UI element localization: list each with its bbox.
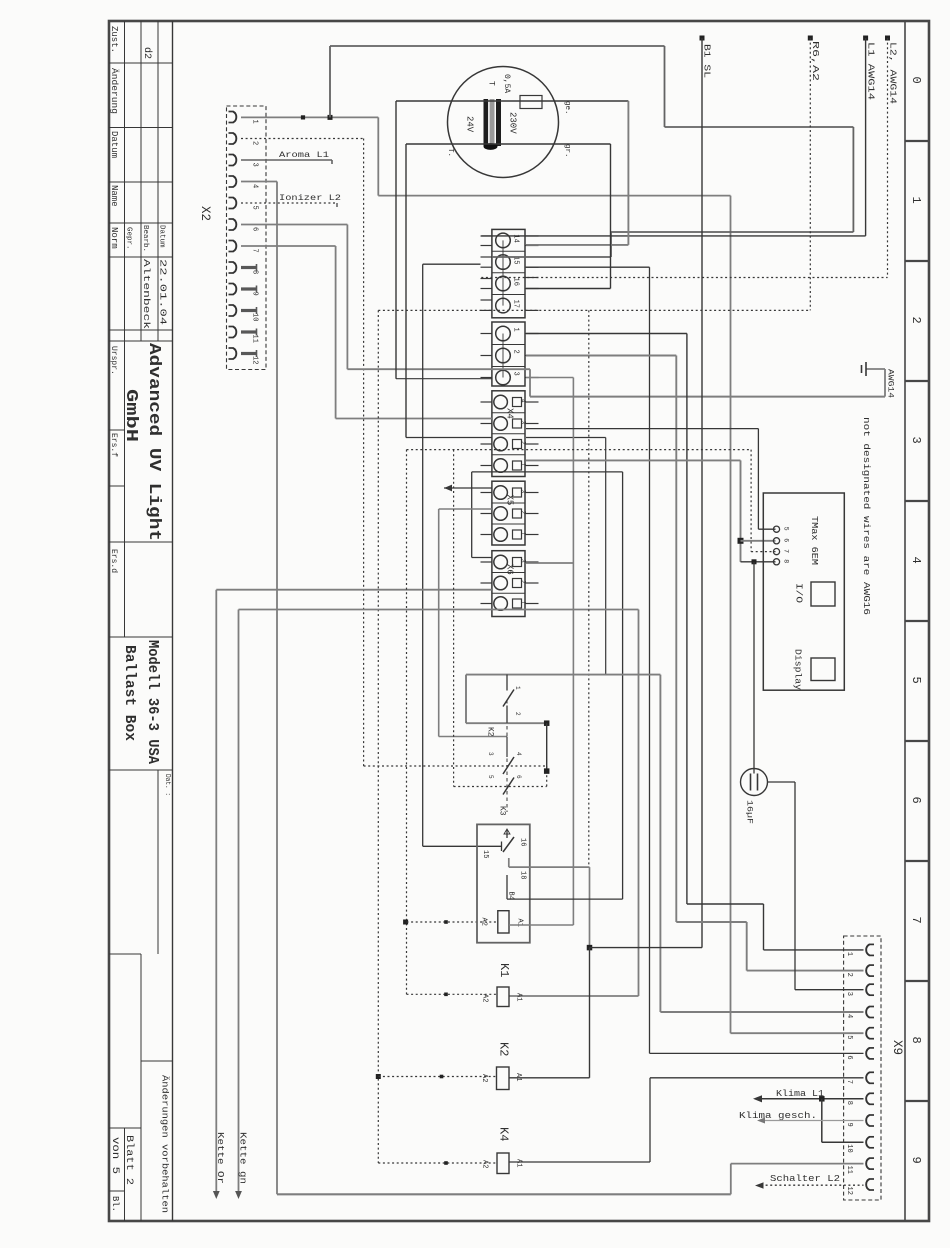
svg-text:2: 2 (514, 712, 521, 716)
svg-text:GmbH: GmbH (121, 389, 140, 442)
svg-text:Altenbeck: Altenbeck (141, 259, 152, 329)
svg-text:Norm: Norm (109, 227, 119, 249)
svg-text:A1: A1 (515, 1159, 523, 1167)
svg-text:2: 2 (251, 141, 259, 145)
svg-text:6: 6 (783, 538, 790, 542)
svg-text:0,5A: 0,5A (502, 74, 511, 93)
svg-text:X4: X4 (505, 408, 515, 419)
svg-text:Name: Name (109, 185, 119, 207)
svg-text:6: 6 (515, 775, 522, 779)
svg-text:Änderungen vorbehalten: Änderungen vorbehalten (160, 1075, 171, 1213)
svg-text:Ballast Box: Ballast Box (121, 645, 138, 741)
svg-text:4: 4 (251, 184, 259, 188)
svg-text:1: 1 (251, 120, 259, 124)
svg-text:2: 2 (512, 350, 520, 354)
svg-text:A2: A2 (481, 1160, 489, 1168)
svg-text:R6,A2: R6,A2 (810, 41, 820, 81)
svg-text:3: 3 (512, 372, 520, 376)
svg-text:7: 7 (251, 249, 259, 253)
svg-text:0: 0 (909, 77, 923, 84)
svg-text:9: 9 (845, 1123, 853, 1127)
svg-text:K1: K1 (497, 963, 511, 977)
svg-text:Schalter L2: Schalter L2 (770, 1173, 840, 1184)
svg-text:T: T (487, 81, 496, 86)
svg-text:K2: K2 (497, 1042, 511, 1056)
svg-text:5: 5 (487, 775, 494, 779)
svg-text:Datum: Datum (158, 225, 166, 248)
svg-text:3: 3 (845, 992, 853, 996)
svg-text:K4: K4 (497, 1127, 511, 1141)
svg-text:Urspr.: Urspr. (109, 346, 118, 375)
svg-text:16: 16 (512, 278, 520, 286)
svg-text:Klima L1: Klima L1 (776, 1088, 824, 1099)
svg-text:L2, AWG14: L2, AWG14 (888, 42, 898, 104)
svg-text:11: 11 (251, 335, 259, 343)
svg-text:22.01.04: 22.01.04 (158, 259, 169, 325)
svg-text:Aroma L1: Aroma L1 (279, 150, 329, 160)
svg-text:2: 2 (909, 317, 923, 324)
svg-text:17: 17 (512, 300, 520, 308)
svg-text:1: 1 (514, 686, 521, 690)
svg-text:K3: K3 (498, 806, 507, 816)
svg-text:10: 10 (845, 1144, 853, 1152)
svg-text:Ionizer L2: Ionizer L2 (279, 193, 341, 203)
svg-text:5: 5 (845, 1035, 853, 1039)
svg-text:L1 AWG14: L1 AWG14 (866, 42, 876, 100)
svg-text:5: 5 (783, 527, 790, 531)
svg-text:Ers.d: Ers.d (109, 549, 118, 573)
svg-text:Bearb.: Bearb. (141, 225, 149, 252)
svg-text:12: 12 (845, 1187, 853, 1195)
svg-text:X9: X9 (890, 1040, 904, 1055)
svg-text:A2: A2 (481, 994, 489, 1002)
svg-text:Advanced UV Light: Advanced UV Light (144, 343, 163, 541)
svg-text:8: 8 (909, 1037, 923, 1044)
svg-text:1: 1 (845, 952, 853, 956)
svg-text:Display: Display (793, 649, 803, 691)
svg-text:A1: A1 (515, 993, 523, 1001)
svg-text:Bl.: Bl. (110, 1196, 120, 1212)
svg-text:11: 11 (845, 1166, 853, 1174)
svg-text:6: 6 (909, 797, 923, 804)
svg-text:not designated wires are AWG16: not designated wires are AWG16 (861, 417, 871, 615)
svg-text:5: 5 (909, 677, 923, 684)
svg-text:A2: A2 (480, 1074, 488, 1082)
svg-text:4: 4 (515, 752, 522, 756)
svg-text:9: 9 (909, 1157, 923, 1164)
svg-text:3: 3 (909, 437, 923, 444)
svg-text:B1 SL: B1 SL (702, 44, 712, 78)
svg-text:12: 12 (251, 356, 259, 364)
svg-text:Ers.f: Ers.f (109, 433, 118, 457)
svg-text:gr.: gr. (563, 144, 571, 158)
svg-text:d2: d2 (141, 47, 153, 59)
svg-text:Datum: Datum (109, 131, 119, 158)
svg-text:15: 15 (481, 850, 489, 858)
svg-text:Dat. :: Dat. : (163, 774, 171, 796)
svg-text:Gepr.: Gepr. (125, 227, 133, 250)
svg-text:Blatt 2: Blatt 2 (123, 1135, 135, 1185)
svg-text:AWG14: AWG14 (886, 369, 896, 398)
svg-text:Zust.: Zust. (109, 26, 119, 53)
svg-text:16: 16 (519, 838, 527, 846)
svg-text:I/O: I/O (794, 583, 804, 603)
svg-text:24V: 24V (465, 116, 475, 133)
svg-text:A2: A2 (480, 918, 488, 926)
svg-text:ge.: ge. (563, 101, 571, 115)
svg-text:TMax 6EM: TMax 6EM (809, 516, 820, 565)
svg-text:7: 7 (783, 549, 790, 553)
svg-text:von 5: von 5 (109, 1137, 120, 1174)
svg-text:Klima gesch.: Klima gesch. (739, 1110, 817, 1121)
svg-text:K2: K2 (486, 727, 495, 737)
svg-text:16µF: 16µF (745, 800, 755, 824)
svg-text:3: 3 (251, 163, 259, 167)
svg-text:4: 4 (845, 1014, 853, 1018)
svg-text:Modell 36-3 USA: Modell 36-3 USA (144, 640, 161, 764)
svg-text:8: 8 (783, 559, 790, 563)
svg-text:18: 18 (519, 871, 527, 879)
svg-text:2: 2 (845, 973, 853, 977)
svg-text:7: 7 (845, 1080, 853, 1084)
svg-text:1: 1 (512, 328, 520, 332)
svg-text:X5: X5 (505, 495, 515, 506)
svg-text:8: 8 (845, 1101, 853, 1105)
svg-text:Kette gn: Kette gn (238, 1132, 249, 1184)
svg-text:5: 5 (251, 206, 259, 210)
svg-text:Änderung: Änderung (109, 68, 119, 114)
svg-text:230V: 230V (508, 112, 518, 134)
svg-text:4: 4 (909, 557, 923, 564)
svg-text:X2: X2 (198, 206, 212, 221)
svg-text:7: 7 (909, 917, 923, 924)
svg-text:Kette Or: Kette Or (215, 1132, 226, 1184)
svg-text:X6: X6 (505, 564, 515, 575)
svg-text:10: 10 (251, 313, 259, 321)
svg-text:6: 6 (251, 227, 259, 231)
svg-text:T.: T. (446, 148, 454, 157)
svg-text:6: 6 (845, 1055, 853, 1059)
svg-text:1: 1 (909, 197, 923, 204)
svg-text:3: 3 (487, 752, 494, 756)
